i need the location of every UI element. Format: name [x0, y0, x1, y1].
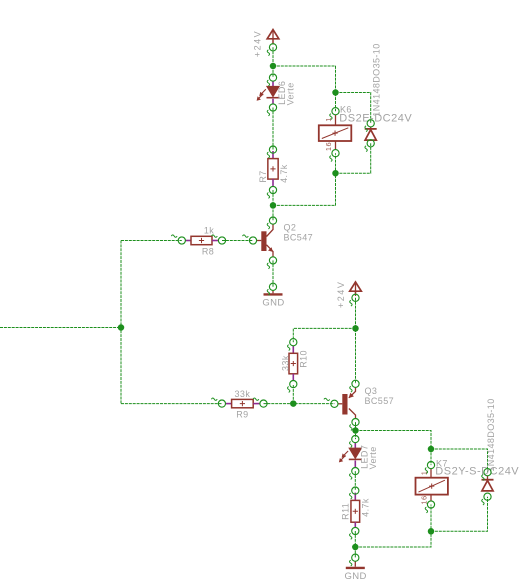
- svg-text:1N4148DO35-10: 1N4148DO35-10: [372, 43, 382, 116]
- diode D1 1N4148DO35-10: [370, 127, 372, 129]
- transistor Q2 BC547: [261, 231, 266, 251]
- pin K6 coil bottom: [332, 150, 339, 157]
- wire R8 to Q2 base: [222, 240, 253, 242]
- wire input net from left edge: [0, 327, 121, 329]
- resistor R8 value 1k: [185, 240, 191, 242]
- svg-text:Verte: Verte: [368, 446, 378, 469]
- junction relay/diode top branch: [332, 89, 339, 96]
- ground GND top: [272, 290, 274, 293]
- wire branch to diode D1 top: [336, 93, 371, 124]
- svg-text:R8: R8: [202, 247, 214, 257]
- wire R7 to Q2 collector: [272, 190, 274, 221]
- svg-text:4.7k: 4.7k: [279, 164, 289, 183]
- pin D2 anode: [484, 493, 491, 500]
- pin D2 cathode: [484, 469, 491, 476]
- pin LED6 anode: [269, 74, 276, 81]
- svg-text:GND: GND: [262, 298, 284, 309]
- pin Q3 collector: [352, 419, 359, 426]
- wire Q2 emitter to GND: [272, 260, 274, 286]
- pin Q3 base: [331, 400, 338, 407]
- junction +24V bottom / R10 branch: [352, 325, 359, 332]
- wire input to R9: [121, 403, 222, 405]
- pin LED6 cathode: [269, 104, 276, 111]
- wire +24V to relay K6 top: [273, 66, 336, 111]
- pin GND top: [269, 283, 276, 290]
- pin Q2 base: [249, 237, 256, 244]
- pin R11 bottom: [352, 527, 359, 534]
- wire LED6 cathode to R7: [272, 108, 274, 150]
- svg-text:Q2: Q2: [284, 223, 297, 233]
- wire to relay K6 bottom: [273, 153, 336, 205]
- svg-text:1N4148DO35-10: 1N4148DO35-10: [486, 398, 496, 471]
- junction R9 / R10 bottom: [290, 400, 297, 407]
- pin R8 right: [218, 237, 225, 244]
- pin R7 bottom: [269, 186, 276, 193]
- svg-text:16: 16: [324, 142, 333, 151]
- pin R9 left: [218, 400, 225, 407]
- pin R10 top: [290, 339, 297, 346]
- svg-text:DS2Y-S-DC24V: DS2Y-S-DC24V: [435, 466, 519, 478]
- svg-text:Verte: Verte: [286, 82, 296, 105]
- wire R9 to Q3 base: [264, 403, 335, 405]
- svg-text:Q3: Q3: [365, 386, 378, 396]
- node +24V top rail: [272, 47, 274, 66]
- wire diode D1 bottom branch: [336, 143, 371, 173]
- svg-text:BC547: BC547: [284, 233, 314, 243]
- resistor R10 value 33k: [292, 346, 294, 354]
- svg-text:R10: R10: [299, 350, 309, 368]
- pin R7 top: [269, 146, 276, 153]
- pin LED7 cathode: [352, 468, 359, 475]
- node +24V bottom rail: [355, 298, 357, 384]
- svg-text:R11: R11: [341, 503, 351, 520]
- wire +24V to R10 top: [293, 328, 355, 342]
- junction R11 bottom / relay return: [352, 544, 359, 551]
- wire to relay K7 top: [356, 431, 432, 466]
- relay K7 DS2Y-S-DC24V coil: [430, 469, 432, 478]
- transistor Q3 BC557: [342, 394, 347, 415]
- svg-text:33k: 33k: [235, 389, 251, 399]
- svg-text:R7: R7: [258, 170, 268, 182]
- svg-text:BC557: BC557: [365, 396, 395, 406]
- resistor R7 value 4.7k: [272, 151, 274, 159]
- junction relay bottom / diode bottom: [332, 170, 339, 177]
- pin Q2 emitter: [269, 257, 276, 264]
- relay K6 DS2E-DC24V coil: [335, 115, 337, 126]
- junction K7 bottom / diode D2 bottom: [428, 528, 435, 535]
- pin GND bottom: [352, 554, 359, 561]
- pin K6 coil top: [332, 108, 339, 115]
- svg-text:4.7k: 4.7k: [360, 498, 370, 517]
- pin of +24V bottom: [352, 294, 359, 301]
- wire R11 bottom to GND: [354, 531, 356, 558]
- wire diode D2 bottom branch: [431, 497, 488, 532]
- diode D2 1N4148DO35-10: [487, 476, 489, 480]
- svg-text:33k: 33k: [281, 355, 291, 371]
- power +24V supply symbol top: [267, 30, 279, 39]
- svg-text:+24V: +24V: [336, 281, 346, 308]
- pin R9 right: [260, 400, 267, 407]
- wire input vertical: [120, 241, 122, 404]
- power +24V supply symbol bottom: [350, 282, 362, 291]
- junction top +24V / relay branch: [270, 63, 277, 70]
- junction R7 bottom / relay branch: [270, 202, 277, 209]
- pin LED7 anode: [352, 436, 359, 443]
- wire LED7 cathode to R11: [354, 471, 356, 491]
- LED LED7: [354, 443, 356, 449]
- resistor R11 value 4.7k: [354, 493, 356, 501]
- junction Q3 collector / relay branch: [352, 427, 359, 434]
- wire input to R8: [121, 240, 182, 242]
- svg-text:1k: 1k: [204, 226, 214, 236]
- pin of +24V top: [269, 44, 276, 51]
- junction input net: [118, 324, 125, 331]
- pin R10 bottom: [290, 381, 297, 388]
- pin D1 anode: [367, 140, 374, 147]
- pin K7 coil bottom: [427, 501, 434, 508]
- wire R10 bottom: [292, 384, 294, 404]
- wire branch to diode D2 top: [431, 449, 488, 472]
- pin D1 cathode: [367, 120, 374, 127]
- pin R11 top: [352, 487, 359, 494]
- resistor R9 value 33k: [225, 403, 231, 405]
- pin K7 coil top: [427, 462, 434, 469]
- wire Q3 collector down: [355, 422, 357, 439]
- pin Q2 collector: [269, 217, 276, 224]
- wire relay K7 return: [355, 505, 431, 548]
- ground GND bottom: [354, 561, 356, 567]
- junction K7 / diode D2 top branch: [428, 446, 435, 453]
- pin Q3 emitter: [352, 380, 359, 387]
- LED LED6: [272, 81, 274, 86]
- svg-text:+24V: +24V: [252, 30, 262, 57]
- svg-text:GND: GND: [344, 571, 366, 582]
- wire +24V to LED6 anode: [272, 66, 274, 78]
- pin R8 left: [178, 237, 185, 244]
- svg-text:R9: R9: [236, 409, 248, 419]
